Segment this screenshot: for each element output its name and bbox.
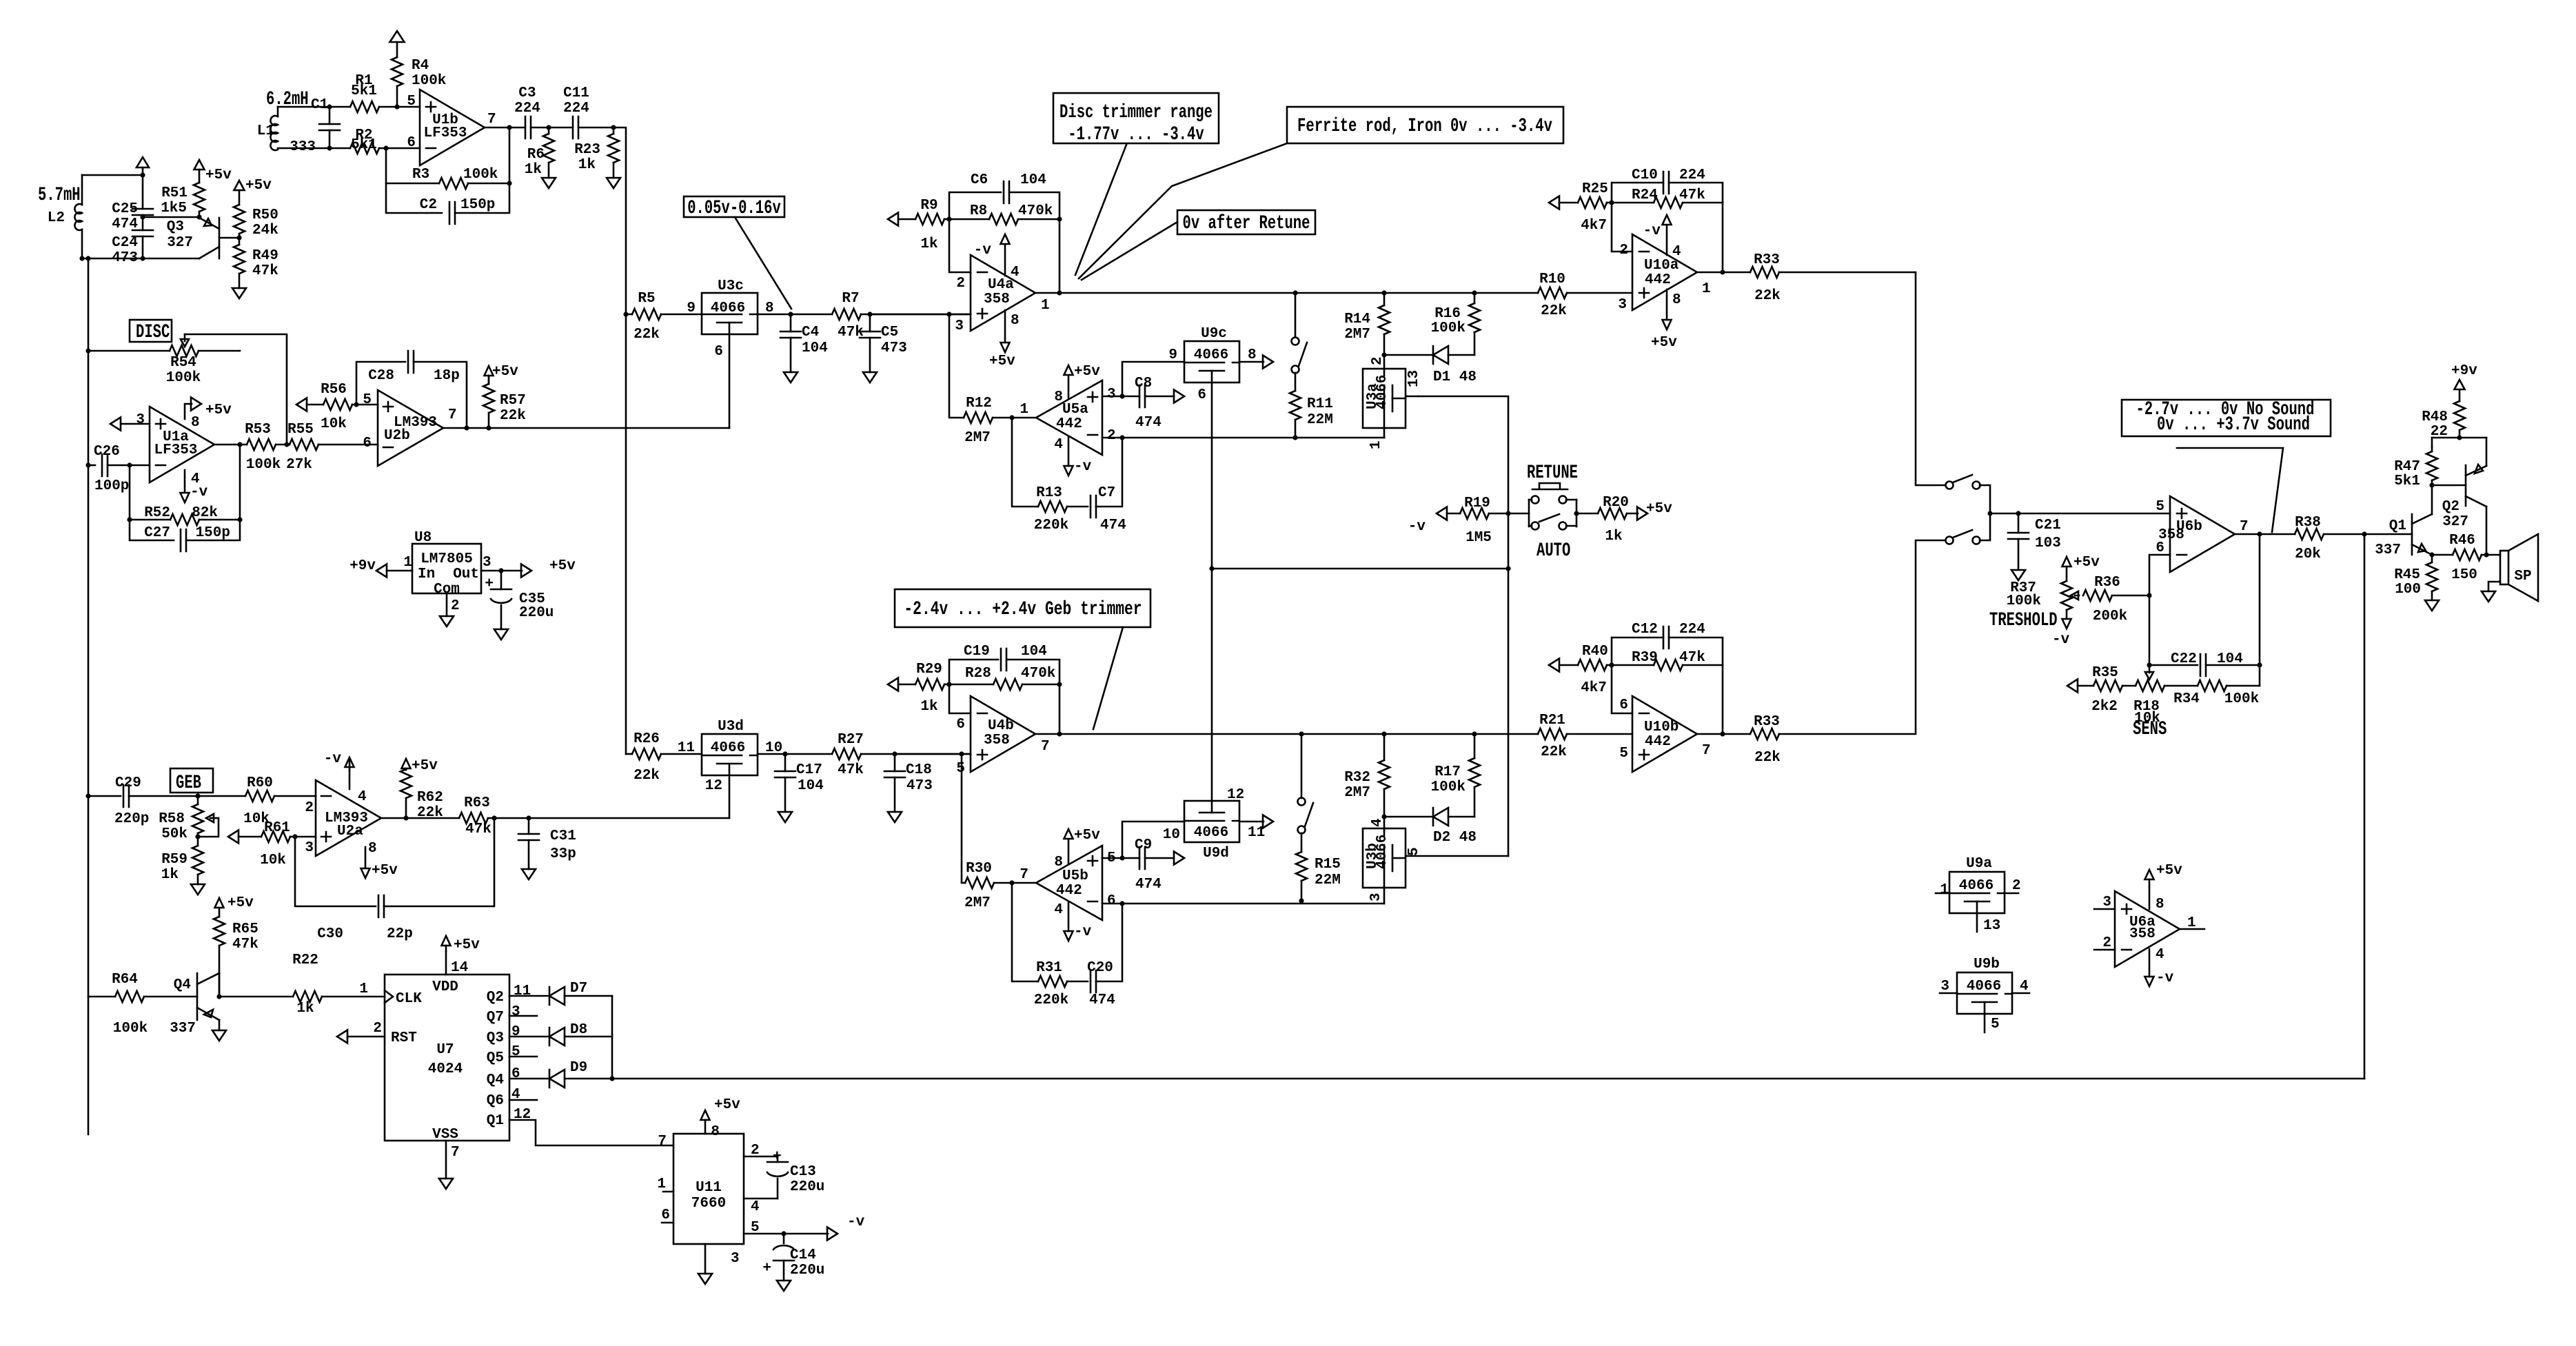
svg-text:1k: 1k: [578, 157, 596, 173]
svg-text:18p: 18p: [434, 368, 460, 384]
resistor R63 47k: [459, 813, 488, 824]
capacitor C24 473: [132, 230, 153, 236]
svg-text:C18: C18: [906, 762, 932, 778]
resistor R33 22k (second): [1750, 728, 1779, 740]
op-amp U10b 442: [1632, 696, 1697, 772]
supply arrow +5v R57: [485, 366, 494, 376]
svg-text:100: 100: [2395, 582, 2421, 598]
svg-text:TRESHOLD: TRESHOLD: [1989, 610, 2058, 631]
svg-text:224: 224: [1679, 622, 1705, 638]
svg-text:104: 104: [802, 340, 828, 356]
op-amp U1b LF353: [420, 90, 485, 165]
op-amp U1a LF353: [150, 407, 214, 482]
analog switch U3c 4066: [702, 293, 758, 334]
resistor R6 1k: [546, 125, 551, 130]
op-amp U6b 358: [2170, 496, 2235, 572]
svg-text:220k: 220k: [1034, 992, 1068, 1008]
svg-text:C13: C13: [790, 1164, 816, 1180]
svg-text:100k: 100k: [246, 457, 281, 473]
capacitor C25 474: [140, 172, 145, 177]
input port arrow RST: [337, 1030, 347, 1043]
svg-text:-v: -v: [1643, 223, 1661, 239]
leader line No Sound box: [2177, 448, 2283, 532]
svg-text:104: 104: [1021, 644, 1047, 660]
capacitor C12 224: [1612, 638, 1663, 665]
svg-text:22M: 22M: [1315, 873, 1341, 888]
svg-text:333: 333: [290, 139, 316, 155]
wire U2b output: [443, 427, 729, 429]
capacitor C9 474: [1139, 847, 1145, 869]
node R30/R31/U5b pin7: [1009, 880, 1014, 885]
ground C14: [777, 1281, 791, 1291]
resistor R19 1M5: [1447, 513, 1460, 515]
svg-text:6: 6: [1107, 893, 1116, 909]
switch B (U9b contact): [1946, 537, 1954, 544]
node R25/R24/pin2 U10a: [1609, 200, 1614, 205]
svg-text:R48: R48: [2422, 409, 2448, 425]
svg-text:U10b: U10b: [1644, 720, 1679, 735]
svg-text:1M5: 1M5: [1466, 530, 1492, 546]
svg-text:7: 7: [451, 1145, 460, 1161]
svg-text:0.05v-0.16v: 0.05v-0.16v: [687, 198, 781, 219]
svg-text:0v after Retune: 0v after Retune: [1183, 213, 1310, 234]
svg-text:473: 473: [906, 778, 933, 794]
svg-text:474: 474: [1100, 518, 1126, 533]
node U3a pin2 / D1: [1381, 352, 1386, 357]
node R61 / C30: [292, 834, 297, 839]
wire U3d pin10 to C17: [758, 753, 832, 755]
svg-text:7: 7: [2240, 519, 2249, 535]
svg-text:+5v: +5v: [245, 178, 272, 194]
capacitor C22 104: [2147, 662, 2151, 667]
svg-text:R33: R33: [1754, 714, 1780, 730]
ground R23: [607, 178, 620, 188]
resistor R48 22: [2459, 390, 2461, 401]
svg-text:12: 12: [705, 778, 722, 794]
wire L2 bottom row: [79, 256, 84, 261]
pin 8 supply +5v U1a: [185, 404, 192, 419]
svg-text:U9d: U9d: [1203, 846, 1229, 861]
output port arrow C8: [1174, 390, 1184, 403]
svg-text:3: 3: [511, 1004, 520, 1020]
input port arrow +9v U8: [376, 564, 387, 578]
svg-text:3: 3: [955, 318, 964, 334]
svg-text:4: 4: [2020, 979, 2029, 995]
wire long vertical to bottom bus: [2364, 534, 2366, 1079]
svg-text:8: 8: [191, 415, 200, 431]
op-amp U2a LM393: [316, 780, 381, 856]
resistor R9 1k: [898, 218, 915, 221]
svg-text:Q2: Q2: [487, 990, 504, 1006]
svg-text:27k: 27k: [286, 457, 312, 473]
svg-text:Q4: Q4: [174, 977, 191, 993]
svg-text:C4: C4: [802, 325, 819, 340]
capacitor C30 22p: [295, 837, 376, 906]
svg-text:6: 6: [1619, 697, 1628, 713]
node R48 bottom: [2457, 435, 2462, 440]
svg-text:R59: R59: [161, 852, 187, 868]
svg-text:7: 7: [658, 1134, 667, 1150]
ground C4: [784, 372, 798, 383]
annotation box 0.05v-0.16v: [684, 196, 784, 217]
resistor R3 100k feedback: [386, 148, 439, 183]
voltage regulator U8 LM7805: [412, 544, 481, 593]
wire U10a output: [1697, 272, 1750, 274]
svg-text:8: 8: [368, 841, 377, 857]
svg-text:22k: 22k: [1754, 750, 1781, 766]
wire R28/C19 right to U4b output: [1057, 682, 1062, 686]
resistor R27 47k: [832, 748, 861, 759]
svg-text:2: 2: [956, 276, 965, 292]
wire Q1 emitter node: [2429, 552, 2434, 557]
svg-text:R16: R16: [1434, 306, 1461, 322]
pin4 supply -v U5b: [1068, 902, 1070, 931]
svg-text:L1: L1: [257, 123, 274, 139]
svg-text:5: 5: [1619, 746, 1628, 762]
potentiometer R18 10k SENS: [2122, 685, 2136, 687]
wire R8/C6 right to U4a output: [1057, 216, 1062, 221]
svg-text:R63: R63: [464, 795, 490, 811]
capacitor C2 150p feedback: [386, 183, 442, 213]
svg-text:R31: R31: [1036, 960, 1062, 976]
svg-text:22k: 22k: [633, 768, 660, 784]
svg-text:C21: C21: [2035, 518, 2061, 533]
svg-text:C6: C6: [971, 172, 988, 188]
svg-text:470k: 470k: [1018, 203, 1053, 219]
svg-text:5k1: 5k1: [2394, 473, 2420, 489]
input port arrow pin3 U1a: [110, 418, 121, 431]
svg-text:U4b: U4b: [988, 718, 1014, 734]
resistor R65 47k: [219, 908, 221, 917]
resistor R45 100: [2431, 555, 2433, 562]
wire pin6 L: [949, 684, 971, 713]
wire U4a output row: [1035, 292, 1538, 294]
wire R10 to U10a pin3: [1567, 292, 1632, 294]
resistor R61 10k: [239, 836, 261, 838]
svg-text:4: 4: [358, 789, 367, 805]
wire U2a output row: [381, 817, 459, 819]
svg-text:R26: R26: [633, 731, 660, 747]
svg-text:5: 5: [1406, 847, 1422, 856]
transistor Q3 327: [219, 218, 221, 258]
svg-text:R65: R65: [232, 921, 258, 937]
svg-text:2: 2: [1107, 428, 1116, 444]
svg-text:R40: R40: [1582, 644, 1608, 660]
svg-text:U9b: U9b: [1974, 957, 2000, 972]
svg-text:R61: R61: [264, 820, 290, 836]
R54 wiper arrow: [184, 334, 186, 341]
svg-text:33p: 33p: [550, 846, 576, 862]
svg-text:22k: 22k: [1541, 744, 1567, 760]
svg-text:R9: R9: [920, 198, 937, 214]
resistor R14 2M7: [1381, 290, 1386, 295]
pin4 supply -v U2a: [349, 770, 351, 789]
switch RETUNE/AUTO dpst: [1508, 513, 1529, 515]
svg-text:1k: 1k: [161, 867, 179, 883]
ground C17: [778, 812, 792, 822]
svg-text:U3c: U3c: [718, 278, 744, 294]
svg-text:1k: 1k: [1605, 529, 1622, 544]
wire Q2 collector down to R46: [2486, 507, 2488, 555]
svg-text:224: 224: [1679, 167, 1705, 183]
svg-text:+5v: +5v: [454, 937, 480, 953]
resistor R46 150: [2432, 554, 2453, 556]
svg-text:5: 5: [956, 761, 965, 777]
svg-text:CLK: CLK: [396, 991, 422, 1007]
speaker ground stub: [2488, 582, 2500, 591]
op-amp U4b 358: [971, 696, 1035, 772]
svg-text:Q7: Q7: [487, 1010, 504, 1026]
transistor Q2 327: [2465, 465, 2467, 506]
svg-text:100k: 100k: [2224, 691, 2259, 707]
wire L1 bottom to C1/R2: [278, 147, 329, 150]
svg-text:7: 7: [487, 112, 496, 128]
svg-text:47k: 47k: [232, 937, 258, 952]
svg-text:47k: 47k: [1679, 187, 1705, 203]
resistor R64 100k: [88, 996, 115, 998]
wire U9c pin6 down to U9d pin12: [1211, 383, 1213, 801]
annotation box Disc trimmer range: [1053, 93, 1219, 143]
resistor R22 1k: [293, 991, 322, 1002]
svg-text:100k: 100k: [1431, 320, 1466, 336]
svg-text:Q3: Q3: [487, 1030, 504, 1046]
svg-text:R56: R56: [321, 382, 347, 398]
capacitor C6 104: [949, 192, 1001, 219]
potentiometer R58 50k: [195, 793, 200, 798]
capacitor C35 220u: [498, 568, 503, 573]
svg-text:220k: 220k: [1034, 518, 1068, 533]
svg-text:D8: D8: [570, 1022, 587, 1038]
svg-text:22M: 22M: [1307, 412, 1333, 428]
U7 pin7 ground: [445, 1141, 447, 1179]
output port arrow C9: [1174, 852, 1184, 865]
svg-text:Q2: Q2: [2442, 499, 2460, 515]
svg-text:Q1: Q1: [487, 1113, 504, 1129]
svg-text:R17: R17: [1434, 764, 1461, 780]
annotation box Ferrite rod: [1287, 107, 1563, 143]
svg-text:R24: R24: [1632, 187, 1658, 203]
resistor R21 22k: [1538, 728, 1567, 740]
svg-text:2: 2: [2012, 878, 2021, 894]
svg-text:C31: C31: [550, 828, 576, 844]
svg-text:4: 4: [1672, 244, 1681, 260]
resistor R47 5k1: [2431, 447, 2433, 451]
svg-text:358: 358: [984, 733, 1010, 748]
svg-text:150: 150: [2451, 567, 2477, 583]
wire pin2/C26 node down to R52: [129, 465, 131, 520]
svg-text:C24: C24: [112, 235, 138, 251]
svg-text:R8: R8: [970, 203, 987, 219]
capacitor C10 224: [1612, 183, 1663, 203]
input port arrow R29: [888, 678, 898, 691]
svg-text:5.7mH: 5.7mH: [38, 185, 81, 206]
switch S2 auto-retune bottom: [1299, 731, 1304, 736]
wire to U3d pin12: [529, 817, 729, 819]
svg-text:+5v: +5v: [205, 402, 232, 418]
svg-text:-v: -v: [1074, 924, 1092, 940]
svg-text:+5v: +5v: [227, 895, 254, 911]
svg-text:220u: 220u: [790, 1263, 824, 1278]
svg-text:R64: R64: [112, 972, 138, 988]
svg-text:C9: C9: [1135, 837, 1152, 853]
svg-text:+: +: [485, 576, 494, 592]
svg-text:R23: R23: [574, 142, 600, 158]
wire R47 junction to Q2 base: [2432, 485, 2466, 487]
svg-text:3: 3: [1368, 893, 1384, 901]
resistor R23 1k: [611, 125, 616, 130]
resistor R32 2M7: [1381, 731, 1386, 736]
svg-text:5: 5: [751, 1220, 760, 1236]
svg-text:5: 5: [511, 1044, 520, 1060]
svg-text:224: 224: [514, 101, 540, 116]
wire U5a pin2 row: [1102, 437, 1384, 439]
svg-text:-1.77v ... -3.4v: -1.77v ... -3.4v: [1068, 124, 1204, 145]
ground R45: [2425, 600, 2439, 611]
resistor R50 24k: [234, 181, 245, 190]
svg-text:4066: 4066: [1375, 835, 1390, 869]
svg-text:R14: R14: [1344, 312, 1370, 327]
wire U6b output: [2235, 533, 2295, 536]
svg-text:GEB: GEB: [176, 773, 201, 794]
svg-text:4024: 4024: [428, 1061, 463, 1077]
ground C18: [888, 812, 902, 822]
R37 wiper arrow / R36: [2075, 595, 2079, 597]
node R12/R13/U5a pin1: [1009, 415, 1014, 420]
svg-text:4066: 4066: [1194, 347, 1228, 363]
ground R49: [232, 288, 246, 298]
U7 pin14 +5v: [445, 951, 447, 975]
svg-text:D2 48: D2 48: [1433, 830, 1477, 846]
svg-text:C5: C5: [881, 325, 898, 340]
svg-text:2M7: 2M7: [1344, 327, 1370, 343]
svg-text:C26: C26: [94, 444, 120, 460]
U11 pin3 ground: [704, 1244, 707, 1274]
capacitor C27 150p: [130, 520, 174, 540]
wire U7 Q1 pin12 to U11 pin7: [509, 1120, 673, 1145]
svg-text:6: 6: [407, 135, 416, 151]
svg-text:358: 358: [2129, 926, 2156, 942]
resistor R7 47k: [832, 309, 861, 320]
svg-text:C2: C2: [420, 197, 437, 213]
svg-text:-v: -v: [2052, 632, 2070, 648]
svg-text:R21: R21: [1539, 713, 1565, 728]
input port arrow R25: [1549, 196, 1559, 210]
svg-text:U9c: U9c: [1201, 326, 1227, 342]
svg-text:100k: 100k: [412, 73, 446, 89]
resistor R35 2k2: [2078, 685, 2093, 687]
wire U7 Q5 stub: [509, 1056, 537, 1058]
svg-text:LM7805: LM7805: [420, 551, 473, 567]
analog switch U9c 4066: [1184, 341, 1239, 383]
svg-text:+9v: +9v: [349, 558, 376, 574]
leader line to Disc trimmer box: [1075, 145, 1126, 275]
svg-text:R50: R50: [252, 207, 278, 223]
pin 4 supply -v U1a: [184, 470, 186, 492]
svg-text:4: 4: [191, 471, 200, 487]
svg-text:47k: 47k: [838, 762, 864, 778]
svg-text:C30: C30: [317, 926, 343, 942]
svg-text:4066: 4066: [711, 300, 745, 316]
svg-text:U5b: U5b: [1062, 868, 1088, 884]
svg-text:6: 6: [2156, 540, 2164, 556]
wire Q1 collector to R47: [2431, 485, 2433, 514]
node long wire down: [2362, 531, 2366, 536]
svg-text:100k: 100k: [113, 1021, 148, 1037]
capacitor C4 104: [788, 312, 793, 316]
svg-text:2M7: 2M7: [1344, 785, 1370, 801]
inductor L2 5.7mH: [81, 175, 83, 205]
svg-text:20k: 20k: [2295, 547, 2321, 562]
svg-text:2: 2: [2102, 935, 2111, 951]
svg-text:C8: C8: [1135, 376, 1152, 391]
wire R21 to U10b pin5: [1567, 733, 1632, 735]
svg-text:Q1: Q1: [2389, 518, 2406, 534]
svg-text:+: +: [762, 1261, 771, 1276]
pin4 supply -v U10a: [1666, 225, 1668, 255]
svg-text:3: 3: [731, 1251, 740, 1267]
supply arrow +5v R51: [194, 160, 205, 170]
svg-text:100k: 100k: [1431, 779, 1466, 795]
svg-text:R57: R57: [500, 393, 526, 409]
svg-text:47k: 47k: [252, 263, 278, 279]
svg-text:12: 12: [1227, 787, 1244, 803]
wire U3c pin8 to C4: [758, 314, 832, 316]
resistor R31 220k feedback: [1012, 883, 1038, 981]
resistor R28 470k: [949, 684, 993, 686]
svg-text:100p: 100p: [94, 478, 129, 494]
svg-text:+5v: +5v: [1074, 364, 1100, 380]
pin8 supply +5v U10a: [1666, 289, 1668, 320]
svg-text:22p: 22p: [387, 926, 413, 942]
resistor R11 22M: [1290, 391, 1301, 420]
svg-text:47k: 47k: [1679, 650, 1705, 666]
svg-text:+9v: +9v: [2451, 363, 2477, 379]
svg-text:1: 1: [403, 555, 412, 571]
svg-text:+5v: +5v: [1074, 828, 1100, 844]
svg-text:7: 7: [1041, 739, 1050, 755]
svg-text:R53: R53: [245, 422, 271, 438]
svg-text:+5v: +5v: [492, 364, 518, 380]
U11 pin5 -v output: [744, 1233, 828, 1235]
node R29/R28/pin6: [946, 682, 951, 686]
wire left bus L2 bottom down to R64: [88, 258, 90, 1134]
label GEB box: [170, 768, 213, 793]
capacitor C21 103: [2016, 511, 2020, 516]
svg-text:9: 9: [511, 1024, 520, 1040]
svg-text:4066: 4066: [1967, 979, 2001, 995]
svg-text:4066: 4066: [1194, 825, 1228, 841]
svg-text:327: 327: [167, 235, 193, 251]
svg-text:220u: 220u: [790, 1179, 824, 1195]
svg-text:2k2: 2k2: [2091, 699, 2118, 715]
wire U5b pin6 row: [1102, 903, 1384, 905]
diode D8: [509, 1036, 549, 1038]
svg-text:1: 1: [1940, 882, 1949, 898]
svg-text:R19: R19: [1464, 496, 1490, 511]
capacitor C7 474 feedback: [1067, 506, 1088, 508]
pin8 supply +5v U5b: [1068, 839, 1070, 864]
svg-text:22: 22: [2431, 424, 2448, 440]
svg-text:1k: 1k: [920, 236, 937, 252]
svg-text:R5: R5: [638, 291, 655, 307]
resistor R39 47k: [1612, 664, 1654, 666]
wire U4b pin5 node down to R30: [962, 754, 965, 883]
svg-text:DISC: DISC: [136, 322, 170, 343]
svg-text:R34: R34: [2173, 691, 2200, 707]
svg-text:R3: R3: [412, 167, 429, 183]
svg-text:-v: -v: [974, 243, 992, 258]
op-amp U4a 358: [971, 255, 1035, 331]
